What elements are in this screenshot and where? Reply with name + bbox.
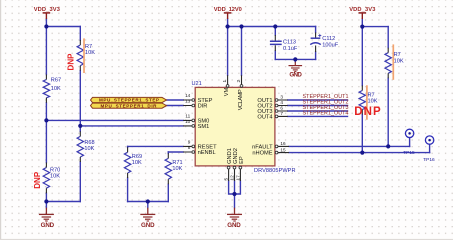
svg-text:DNP: DNP [33, 171, 42, 189]
svg-text:9: 9 [188, 139, 191, 144]
svg-text:DRV8805PWPR: DRV8805PWPR [254, 168, 296, 174]
svg-text:10K: 10K [85, 50, 95, 56]
svg-text:12: 12 [229, 175, 234, 181]
svg-text:10K: 10K [368, 99, 378, 105]
svg-text:10K: 10K [172, 166, 182, 172]
svg-text:17: 17 [235, 175, 240, 181]
svg-text:2: 2 [236, 80, 241, 83]
svg-text:VDD_3V3: VDD_3V3 [349, 7, 375, 13]
svg-text:DNP: DNP [66, 53, 75, 71]
svg-text:7: 7 [280, 111, 283, 116]
svg-text:DNP: DNP [354, 106, 381, 118]
svg-text:10K: 10K [394, 58, 404, 64]
svg-text:C113: C113 [283, 39, 296, 45]
svg-text:R7: R7 [85, 44, 92, 50]
svg-text:0.1uF: 0.1uF [283, 46, 298, 52]
svg-text:3: 3 [280, 95, 283, 100]
svg-text:U21: U21 [192, 81, 202, 87]
svg-text:nFAULT: nFAULT [252, 145, 273, 151]
svg-text:10K: 10K [51, 86, 61, 92]
svg-text:10: 10 [185, 119, 191, 124]
svg-text:SM1: SM1 [198, 124, 210, 130]
svg-text:GND: GND [141, 222, 155, 229]
svg-text:15: 15 [280, 147, 286, 152]
svg-text:10K: 10K [50, 173, 60, 179]
svg-text:5: 5 [224, 178, 229, 181]
svg-text:DIR: DIR [198, 104, 208, 110]
svg-text:1: 1 [222, 80, 227, 83]
svg-text:10K: 10K [84, 146, 94, 152]
svg-text:MPU_STEPPER1_STEP: MPU_STEPPER1_STEP [99, 98, 159, 103]
svg-text:6: 6 [280, 106, 283, 111]
svg-text:VM: VM [224, 88, 230, 97]
svg-text:R7: R7 [394, 52, 401, 58]
svg-text:8: 8 [188, 145, 191, 150]
svg-text:R67: R67 [51, 78, 61, 84]
svg-text:14: 14 [185, 93, 191, 98]
svg-text:4: 4 [280, 100, 283, 105]
svg-text:GND: GND [227, 222, 241, 229]
svg-text:MPU_STEPPER1_DIR: MPU_STEPPER1_DIR [101, 103, 158, 108]
svg-text:C112: C112 [322, 36, 335, 42]
svg-text:nHOME: nHOME [252, 151, 272, 157]
svg-text:EP: EP [239, 156, 245, 164]
svg-text:STEPPER1_OUT4: STEPPER1_OUT4 [303, 110, 349, 116]
svg-text:GND: GND [41, 222, 55, 229]
svg-text:11: 11 [185, 113, 190, 118]
svg-text:16: 16 [280, 141, 286, 146]
svg-text:VDD_3V3: VDD_3V3 [34, 7, 60, 13]
svg-text:R7: R7 [368, 92, 375, 98]
svg-text:VDD_12V0: VDD_12V0 [214, 7, 242, 13]
svg-text:GND: GND [289, 72, 302, 79]
svg-text:OUT4: OUT4 [257, 115, 272, 121]
svg-text:nENBL: nENBL [198, 150, 216, 156]
svg-text:13: 13 [185, 99, 191, 104]
svg-text:VCLAMP: VCLAMP [238, 89, 244, 110]
svg-text:100uF: 100uF [322, 42, 338, 48]
svg-text:TP16: TP16 [423, 157, 435, 163]
svg-text:10K: 10K [132, 160, 142, 166]
svg-text:TP15: TP15 [403, 150, 415, 156]
